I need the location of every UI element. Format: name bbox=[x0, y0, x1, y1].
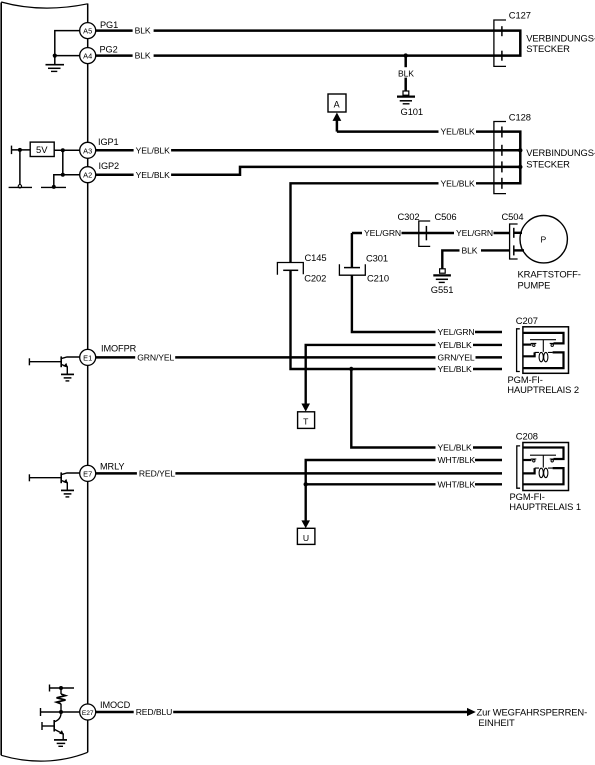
svg-text:C208: C208 bbox=[516, 431, 538, 442]
wires into pump bbox=[514, 233, 524, 251]
svg-text:A4: A4 bbox=[83, 52, 92, 61]
label WHT/BLK (C208 pin4) bbox=[436, 479, 476, 489]
label C504 bbox=[502, 211, 524, 222]
svg-text:C210: C210 bbox=[367, 273, 389, 284]
svg-text:C207: C207 bbox=[516, 315, 538, 326]
svg-text:BLK: BLK bbox=[462, 246, 478, 256]
label YEL/BLK (IGP1) bbox=[134, 145, 172, 155]
wire YEL/GRN C506 to C504 bbox=[427, 232, 510, 234]
wire C210 down to C207 pin1 row bbox=[352, 275, 502, 332]
label C301 bbox=[366, 252, 388, 263]
connector C208 bracket bbox=[517, 446, 520, 488]
svg-text:YEL/BLK: YEL/BLK bbox=[438, 443, 473, 453]
label C208 bbox=[516, 431, 538, 442]
junction C207 pin4 row to C208 pin1 bbox=[349, 367, 353, 371]
wire IGP2 YEL/BLK with jog bbox=[96, 167, 502, 175]
connector C301/C210 bracket bbox=[339, 264, 365, 275]
pin A2 bbox=[80, 167, 96, 183]
pin E7 bbox=[80, 465, 96, 481]
svg-text:A2: A2 bbox=[83, 171, 92, 180]
ground internal at E7 bbox=[61, 490, 74, 497]
off-page connector U box bbox=[297, 528, 315, 544]
wire WHT/BLK C208 pin4 row bbox=[306, 483, 502, 485]
ground G551 bbox=[433, 269, 451, 283]
label IGP2 bbox=[99, 161, 120, 171]
label BLK on PG2 wire bbox=[133, 51, 154, 61]
relay C207 box bbox=[523, 327, 569, 374]
pin E27 bbox=[80, 704, 96, 720]
pin A4 bbox=[80, 48, 96, 64]
regulator 5V box bbox=[30, 142, 54, 156]
wire RED/YEL E7 to C208 pin3 bbox=[96, 472, 502, 475]
connector C302/C506 bracket bbox=[419, 221, 430, 246]
svg-text:P: P bbox=[541, 235, 547, 245]
svg-text:WHT/BLK: WHT/BLK bbox=[438, 479, 476, 489]
svg-text:RED/BLU: RED/BLU bbox=[136, 707, 173, 717]
label KRAFTSTOFF-PUMPE bbox=[518, 268, 581, 290]
svg-text:T: T bbox=[303, 417, 309, 427]
svg-text:YEL/BLK: YEL/BLK bbox=[441, 178, 476, 188]
ground internal at E27 bbox=[54, 740, 67, 746]
junction C128 bus pin3 bbox=[518, 165, 522, 169]
svg-text:G551: G551 bbox=[431, 284, 454, 295]
joint connector C127 bus box bbox=[503, 31, 521, 56]
arrow into U bbox=[301, 520, 310, 528]
label C207 bbox=[516, 315, 538, 326]
svg-text:IMOFPR: IMOFPR bbox=[101, 344, 137, 354]
label MRLY bbox=[100, 462, 124, 472]
label PGM-FI-HAUPTRELAIS 2 bbox=[507, 374, 579, 395]
wire BLK to G101 bbox=[404, 56, 407, 91]
wire 5V to A3 bbox=[54, 149, 79, 151]
transistor internal E27 bbox=[42, 713, 64, 740]
label IMOCD bbox=[100, 700, 131, 710]
pin A5 bbox=[80, 23, 96, 39]
svg-text:YEL/GRN: YEL/GRN bbox=[364, 228, 401, 238]
svg-text:C128: C128 bbox=[509, 112, 531, 123]
label C202 bbox=[304, 272, 326, 283]
svg-text:STECKER: STECKER bbox=[526, 158, 570, 169]
off-page connector T box bbox=[298, 412, 315, 429]
connector C128 pin bars bbox=[501, 127, 503, 189]
svg-text:MRLY: MRLY bbox=[100, 462, 124, 472]
svg-text:BLK: BLK bbox=[398, 68, 414, 78]
pin E1 internal transistor bbox=[29, 356, 79, 374]
svg-text:KRAFTSTOFF-: KRAFTSTOFF- bbox=[518, 268, 581, 279]
label G551 bbox=[431, 284, 454, 295]
junction G101 branch on PG2 wire bbox=[404, 53, 408, 57]
connector C302/C506 pin bar bbox=[425, 226, 427, 240]
pin A3 bbox=[80, 142, 96, 158]
joint connector C128 bus box bbox=[503, 132, 521, 184]
arrow into A bbox=[333, 113, 342, 132]
svg-text:G101: G101 bbox=[401, 106, 424, 117]
internal rail bar 1 bbox=[9, 186, 32, 188]
internal wire at E27 bbox=[41, 708, 80, 716]
connector C127 bracket bbox=[494, 20, 506, 66]
label BLK (pump ground) bbox=[460, 245, 482, 255]
connector C128 bracket bbox=[494, 122, 506, 194]
junction rail 2 bbox=[52, 185, 56, 189]
junction C128 bus pin2 bbox=[518, 148, 522, 152]
fuel pump motor C504 bbox=[520, 216, 567, 263]
label YEL/BLK (IGP2) bbox=[134, 170, 172, 180]
svg-text:C202: C202 bbox=[304, 272, 326, 283]
svg-text:STECKER: STECKER bbox=[526, 43, 570, 54]
svg-text:U: U bbox=[303, 533, 309, 543]
svg-text:Zur WEGFAHRSPERREN-: Zur WEGFAHRSPERREN- bbox=[477, 706, 588, 717]
wire PG1 BLK bbox=[96, 29, 502, 32]
wire A3 branch to A2 bbox=[63, 150, 80, 174]
wire GRN/YEL E1 to C207 pin3 bbox=[96, 356, 502, 359]
wire C202 down to C207 pin4 row bbox=[291, 270, 503, 369]
svg-text:PG2: PG2 bbox=[100, 45, 118, 55]
svg-text:GRN/YEL: GRN/YEL bbox=[438, 353, 475, 363]
connector C207 bracket bbox=[517, 329, 520, 372]
wire A2 branch to rail 2 bbox=[54, 175, 63, 187]
label WHT/BLK (C208 pin2) bbox=[436, 455, 476, 465]
off-page connector A box bbox=[328, 94, 346, 112]
svg-text:5V: 5V bbox=[36, 144, 48, 155]
svg-text:YEL/BLK: YEL/BLK bbox=[136, 170, 171, 180]
svg-text:YEL/BLK: YEL/BLK bbox=[438, 340, 473, 350]
label PGM-FI-HAUPTRELAIS 1 bbox=[509, 491, 581, 512]
relay C208 internals bbox=[523, 448, 564, 485]
svg-text:C301: C301 bbox=[366, 252, 388, 263]
junction A4 ground branch bbox=[53, 54, 57, 58]
svg-text:YEL/BLK: YEL/BLK bbox=[441, 127, 476, 137]
svg-text:C504: C504 bbox=[502, 211, 524, 222]
label C210 bbox=[367, 273, 389, 284]
label PG1 bbox=[100, 20, 118, 30]
wire YEL/BLK C128 pin1 to A bbox=[337, 130, 502, 133]
label PG2 bbox=[100, 45, 118, 55]
svg-text:C302: C302 bbox=[398, 211, 420, 222]
label YEL/GRN (C207 pin1) bbox=[436, 327, 476, 337]
wire YEL/BLK C128 pin4 to C145 bbox=[291, 183, 503, 262]
label C128 bbox=[509, 112, 531, 123]
junction 5V left bbox=[18, 148, 22, 152]
label YEL/GRN (right of C506) bbox=[454, 228, 494, 238]
label C302 bbox=[398, 211, 420, 222]
svg-text:EINHEIT: EINHEIT bbox=[478, 717, 515, 728]
label VERBINDUNGS-STECKER (C128) bbox=[526, 147, 595, 170]
ground G101 bbox=[397, 91, 415, 104]
svg-text:PUMPE: PUMPE bbox=[518, 279, 551, 290]
svg-text:VERBINDUNGS-: VERBINDUNGS- bbox=[526, 147, 595, 158]
pin E1 bbox=[80, 349, 96, 365]
label YEL/BLK (C128 pin4) bbox=[439, 178, 477, 188]
arrow into T bbox=[301, 404, 310, 412]
pin E7 internal transistor bbox=[29, 472, 79, 490]
svg-text:IMOCD: IMOCD bbox=[100, 700, 131, 710]
connector C301/C210 pin bar bbox=[344, 267, 360, 269]
wire IGP1 YEL/BLK bbox=[96, 149, 502, 152]
label BLK on PG1 wire bbox=[133, 26, 154, 36]
pin E27 internal circuit bbox=[50, 685, 75, 695]
relay C208 box bbox=[523, 443, 569, 491]
label GRN/YEL (E1) bbox=[135, 352, 175, 362]
connector C504 pin bars bbox=[513, 228, 515, 256]
label C145 bbox=[305, 252, 327, 263]
svg-text:IGP1: IGP1 bbox=[98, 137, 119, 147]
label Zur WEGFAHRSPERREN-EINHEIT bbox=[477, 706, 588, 728]
svg-text:E27: E27 bbox=[82, 710, 94, 717]
wire YEL/BLK C207 pin2 to T bbox=[306, 345, 502, 404]
svg-text:A: A bbox=[334, 100, 340, 110]
svg-text:PG1: PG1 bbox=[100, 20, 118, 30]
svg-text:HAUPTRELAIS 1: HAUPTRELAIS 1 bbox=[509, 501, 581, 512]
zener diode internal E27 bbox=[57, 694, 66, 712]
svg-text:GRN/YEL: GRN/YEL bbox=[137, 353, 174, 363]
ECU pin bus vertical wire bbox=[87, 4, 89, 753]
ECU boundary left edge bbox=[0, 3, 2, 756]
wire PG2 BLK bbox=[96, 54, 502, 57]
svg-text:WHT/BLK: WHT/BLK bbox=[438, 455, 476, 465]
svg-text:IGP2: IGP2 bbox=[99, 161, 120, 171]
wire C301 up segment YEL/GRN bbox=[351, 233, 353, 267]
svg-text:C145: C145 bbox=[305, 252, 327, 263]
svg-text:A5: A5 bbox=[83, 27, 92, 36]
svg-text:E7: E7 bbox=[83, 469, 92, 478]
svg-text:BLK: BLK bbox=[135, 51, 151, 61]
label YEL/BLK (C207 pin4) bbox=[436, 364, 474, 374]
svg-text:HAUPTRELAIS 2: HAUPTRELAIS 2 bbox=[507, 384, 579, 395]
label RED/BLU (E27) bbox=[134, 707, 174, 717]
label YEL/BLK (C208 pin1) bbox=[436, 443, 474, 453]
svg-text:A3: A3 bbox=[83, 146, 92, 155]
label C127 bbox=[509, 10, 531, 21]
wire A5 to internal ground bbox=[55, 31, 80, 64]
connector C504 bracket bbox=[510, 224, 518, 259]
svg-text:YEL/BLK: YEL/BLK bbox=[438, 364, 473, 374]
svg-text:BLK: BLK bbox=[135, 26, 151, 36]
svg-text:RED/YEL: RED/YEL bbox=[139, 469, 175, 479]
wire RED/BLU E27 to immobilizer bbox=[96, 711, 468, 714]
ECU boundary torn bottom edge bbox=[1, 752, 88, 761]
wire 5V left branch down bbox=[19, 150, 21, 185]
svg-text:C127: C127 bbox=[509, 10, 531, 21]
svg-text:VERBINDUNGS-: VERBINDUNGS- bbox=[526, 32, 595, 43]
connector C127 pin bars bbox=[501, 26, 503, 61]
svg-text:YEL/BLK: YEL/BLK bbox=[136, 145, 171, 155]
ground internal at E1 bbox=[61, 374, 74, 381]
svg-text:C506: C506 bbox=[435, 211, 457, 222]
connector C145/C202 pin bar bbox=[283, 269, 298, 271]
label IGP1 bbox=[98, 137, 119, 147]
junction A2 branch bbox=[61, 173, 65, 177]
label VERBINDUNGS-STECKER (C127) bbox=[526, 32, 595, 54]
wire YEL/BLK junction down to C208 pin1 bbox=[351, 369, 502, 448]
internal stub left of 5V bbox=[12, 146, 31, 155]
wire YEL/GRN to C302 bbox=[352, 232, 426, 234]
ECU boundary torn top edge bbox=[1, 2, 88, 8]
wire WHT/BLK C208 pin2 to U bbox=[306, 460, 502, 521]
label YEL/GRN (left of C302) bbox=[362, 228, 402, 238]
svg-text:YEL/GRN: YEL/GRN bbox=[456, 228, 493, 238]
label RED/YEL (E7) bbox=[137, 468, 176, 478]
junction 5V right bbox=[61, 148, 65, 152]
label C506 bbox=[435, 211, 457, 222]
connector C145/C202 bracket bbox=[277, 263, 303, 275]
label G101 bbox=[401, 106, 424, 117]
relay C207 internals bbox=[523, 333, 564, 368]
label BLK on G101 wire bbox=[397, 67, 417, 78]
wire BLK pump to G551 bbox=[442, 250, 510, 268]
arrow to WEGFAHRSPERREN-EINHEIT bbox=[467, 708, 476, 716]
label YEL/BLK (C128 pin1) bbox=[439, 127, 477, 137]
svg-text:YEL/GRN: YEL/GRN bbox=[438, 327, 475, 337]
ground internal at A4 bbox=[46, 65, 65, 72]
label GRN/YEL (C207 pin3) bbox=[436, 352, 476, 362]
internal rail bar 2 bbox=[41, 186, 66, 188]
open circle terminal on rail 1 bbox=[18, 185, 21, 188]
svg-text:E1: E1 bbox=[83, 353, 92, 362]
label YEL/BLK (C207 pin2) bbox=[436, 340, 474, 350]
junction C208 pin4 row on U branch bbox=[304, 482, 308, 486]
label IMOFPR bbox=[101, 344, 137, 354]
